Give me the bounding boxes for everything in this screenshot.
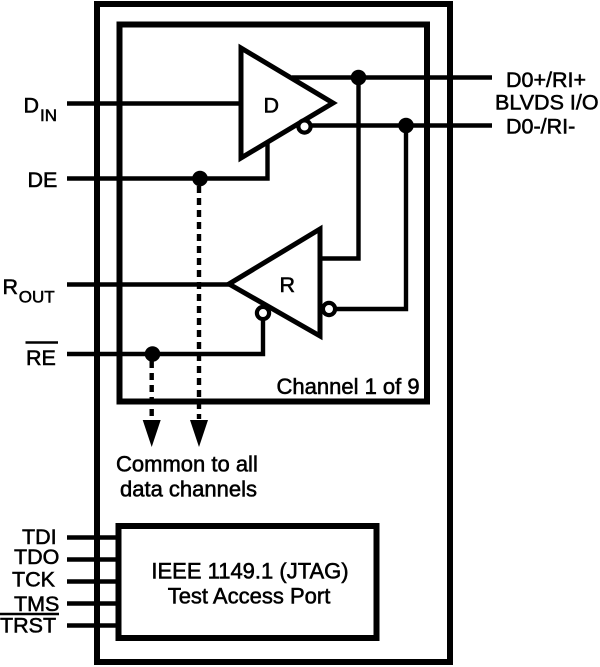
JTAG test access port box [119, 526, 377, 638]
svg-text:Channel 1 of 9: Channel 1 of 9 [277, 374, 420, 399]
svg-text:TDO: TDO [14, 545, 59, 569]
wire TDO [67, 557, 119, 561]
svg-text:data channels: data channels [120, 477, 257, 502]
svg-text:BLVDS I/O: BLVDS I/O [495, 91, 599, 115]
svg-text:R: R [3, 275, 19, 299]
wire TCK [67, 579, 119, 583]
driver inverting output bubble [298, 120, 310, 132]
junction dot on D0- line [398, 118, 414, 134]
wire receiver top input vertical from D0+ junction [320, 78, 359, 259]
svg-text:R: R [280, 273, 296, 297]
wire DE input [67, 140, 268, 179]
svg-text:Common to all: Common to all [116, 452, 258, 477]
junction dot on D0+ line [351, 70, 367, 86]
outer device box [97, 4, 450, 662]
junction dot on RE line [145, 346, 161, 362]
wire ROUT output [67, 282, 235, 286]
driver D triangle [241, 48, 333, 158]
dashed line from DE junction [197, 186, 201, 419]
svg-text:Test Access Port: Test Access Port [168, 584, 331, 609]
wire TDI [67, 535, 119, 539]
svg-text:D0+/RI+: D0+/RI+ [506, 68, 586, 92]
wire D0+ output [292, 75, 492, 79]
wire D0- output [306, 123, 492, 127]
receiver enable bubble [257, 307, 269, 319]
svg-text:D: D [24, 94, 40, 118]
wire receiver inverting input vertical from D0- junction [332, 126, 406, 310]
dashed line from RE junction [149, 361, 153, 419]
inner channel box [120, 25, 428, 402]
svg-text:TMS: TMS [14, 592, 59, 616]
wire TMS [67, 601, 119, 605]
receiver inverting input bubble [323, 303, 335, 315]
svg-text:OUT: OUT [19, 288, 55, 307]
wire RE input [67, 316, 263, 354]
arrowhead of DE dashed line [190, 420, 208, 447]
svg-text:TRST: TRST [0, 614, 56, 638]
svg-text:DE: DE [28, 168, 58, 192]
wire TRST [67, 623, 119, 627]
arrowhead of RE dashed line [143, 420, 161, 447]
svg-text:D0-/RI-: D0-/RI- [506, 115, 575, 139]
svg-text:IEEE 1149.1 (JTAG): IEEE 1149.1 (JTAG) [151, 559, 348, 584]
receiver R triangle [229, 229, 320, 336]
svg-text:IN: IN [40, 106, 57, 125]
svg-text:RE: RE [26, 346, 56, 370]
svg-text:D: D [264, 94, 280, 118]
wire DIN input [67, 101, 241, 105]
junction dot on DE line [192, 171, 208, 187]
svg-text:TCK: TCK [12, 568, 56, 592]
